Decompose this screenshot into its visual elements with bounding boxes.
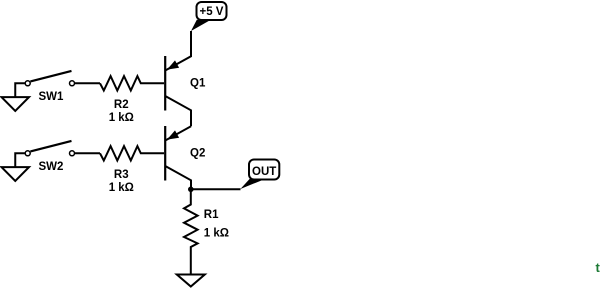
svg-text:Q1: Q1 — [190, 78, 206, 90]
svg-text:SW2: SW2 — [39, 161, 64, 173]
svg-text:SW1: SW1 — [39, 91, 65, 103]
svg-text:1 kΩ: 1 kΩ — [204, 228, 229, 240]
svg-text:+5 V: +5 V — [200, 6, 224, 18]
svg-text:R1: R1 — [204, 209, 219, 221]
svg-text:1 kΩ: 1 kΩ — [109, 182, 134, 194]
svg-text:Q2: Q2 — [190, 148, 205, 160]
svg-text:1 kΩ: 1 kΩ — [109, 112, 134, 124]
svg-text:R3: R3 — [114, 169, 129, 181]
svg-text:R2: R2 — [114, 99, 129, 111]
svg-text:OUT: OUT — [252, 166, 276, 178]
svg-text:th: th — [596, 260, 600, 275]
